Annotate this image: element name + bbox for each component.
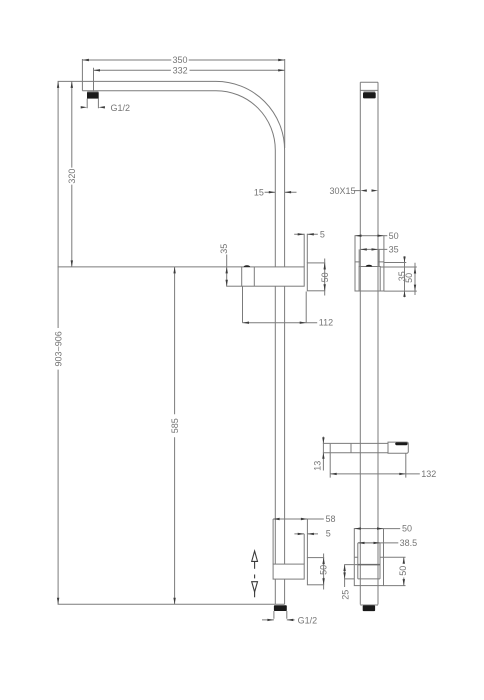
bottom extension line <box>58 603 285 605</box>
dim 5 mid lines <box>294 233 318 235</box>
dim G1/2 bottom lines <box>262 619 295 621</box>
dim 5 bottom lines <box>294 533 318 535</box>
dim 50 front mid line <box>324 259 326 296</box>
dim 112 line <box>243 322 318 324</box>
ext line y585.6 <box>384 585 406 587</box>
dim 132 line <box>330 473 420 475</box>
dim 50 front bottom line <box>323 554 325 590</box>
svg-text:50: 50 <box>389 231 399 241</box>
side bottom ledges <box>354 556 383 558</box>
side mid bracket ledges <box>355 261 384 263</box>
G1/2 inlet connector gray band <box>87 91 98 93</box>
side mid bracket bottom edge <box>355 290 384 292</box>
svg-text:332: 332 <box>173 66 188 76</box>
dim 50 side v line <box>414 263 416 295</box>
side mid bracket outer <box>355 236 384 291</box>
dim 13 line <box>322 437 324 471</box>
svg-text:350: 350 <box>172 55 187 65</box>
holder screw detail front <box>244 265 251 267</box>
dim 35 front bottom extension <box>226 285 242 287</box>
arrows dim 112 <box>243 322 250 324</box>
arrows dim 5 bottom <box>298 533 305 535</box>
holder end piece <box>388 442 408 453</box>
arrows dim G1/2 top <box>81 106 88 108</box>
svg-text:13: 13 <box>313 461 323 471</box>
dim 25 line <box>344 565 346 587</box>
slide down arrow head <box>252 582 258 592</box>
dim 132 extension lines <box>330 453 406 478</box>
side mid block <box>359 267 380 292</box>
arrows dim 25 <box>343 565 345 572</box>
dim 35 front line <box>226 255 228 287</box>
holder bar divider <box>253 267 255 286</box>
dim 5 mid extension lines <box>304 234 307 267</box>
slider block front <box>307 558 323 585</box>
side slider band bottom <box>358 578 380 580</box>
dim 15 lines <box>265 191 297 193</box>
arrows dim 50 front mid <box>324 263 326 270</box>
dim 35 side mid line <box>360 248 387 250</box>
dim 38.5 line <box>358 542 398 544</box>
side top cap black band <box>363 92 376 98</box>
holder top extension line <box>58 266 242 268</box>
side rail left edge <box>359 82 361 604</box>
label 30X15 leader dash <box>354 190 360 192</box>
svg-text:50: 50 <box>319 565 329 575</box>
dim 35 side v line <box>404 256 406 297</box>
bottom cap extension lines <box>274 611 287 619</box>
arrows dim 50 side bottom v <box>403 557 405 564</box>
arrows label 30X15 <box>360 189 367 191</box>
svg-text:50: 50 <box>402 523 412 533</box>
side bottom sleeve <box>358 543 380 579</box>
holder bar side <box>330 443 388 452</box>
slide up arrow head <box>252 551 258 561</box>
dim 50 side bottom v line <box>403 557 405 585</box>
arrows dim 320 <box>71 81 73 88</box>
slide dash <box>254 575 256 579</box>
svg-text:50: 50 <box>404 273 414 283</box>
ext line y557.2 <box>384 556 406 558</box>
arrows dim 58 <box>273 518 280 520</box>
dim 5 bottom extension line <box>303 534 305 564</box>
dim 25 extension lines <box>344 565 358 579</box>
side top cap gray band <box>364 91 376 93</box>
dim 112 extension lines <box>243 286 307 323</box>
ext line y291 <box>384 290 417 292</box>
svg-text:903~906: 903~906 <box>53 331 63 366</box>
dim 350 line <box>82 59 284 61</box>
svg-text:132: 132 <box>421 469 436 479</box>
arrows dim 5 mid <box>298 233 305 235</box>
arm left end cap <box>81 81 83 90</box>
dim 50 side mid line <box>384 235 387 237</box>
dim 13 extension lines <box>323 443 330 452</box>
side bottom bracket outer <box>354 529 383 586</box>
dim 350 extension lines <box>82 59 284 148</box>
dim 332 line <box>94 69 285 71</box>
arm top extension to left dims <box>58 80 83 82</box>
svg-text:320: 320 <box>67 169 77 184</box>
svg-text:35: 35 <box>389 244 399 254</box>
arrows dim 332 <box>94 69 101 71</box>
dim 585 line <box>174 267 176 604</box>
side rail top edge <box>360 81 378 83</box>
shower arm outer profile <box>82 81 284 267</box>
rail front right edge segments <box>284 286 286 604</box>
arrows dim 50 front bottom <box>322 558 324 565</box>
arrows dim 132 <box>330 473 337 475</box>
svg-text:35: 35 <box>219 244 229 254</box>
svg-text:5: 5 <box>320 230 325 240</box>
svg-text:112: 112 <box>319 317 333 327</box>
slide up arrow stem <box>254 561 256 568</box>
side mid bracket hole edges <box>359 249 379 266</box>
arrows dim 50 side bottom top <box>354 527 361 529</box>
side rail right edge <box>377 82 379 604</box>
svg-text:25: 25 <box>341 590 351 600</box>
arrows dim 15 <box>269 191 276 193</box>
svg-text:585: 585 <box>170 418 180 433</box>
svg-text:G1/2: G1/2 <box>111 103 131 113</box>
holder bar side divider <box>350 443 352 452</box>
svg-text:30X15: 30X15 <box>330 186 356 196</box>
rail front left edge segments <box>274 286 276 604</box>
dim 903-906 line <box>57 81 59 604</box>
arrows dim 38.5 <box>358 542 365 544</box>
dim 332 extension line <box>93 68 95 92</box>
dim 320 line <box>71 81 73 267</box>
arrows dim 35 side v <box>403 257 405 263</box>
holder bar front <box>242 267 305 286</box>
arrows dim 35 front <box>226 267 228 274</box>
arrows dim 903-906 <box>57 81 59 88</box>
slide down arrow stem <box>254 592 256 597</box>
side rail cap line <box>360 89 378 91</box>
arrows dim 50 side mid <box>355 235 362 237</box>
svg-text:58: 58 <box>326 514 336 524</box>
ext line y267 <box>380 266 417 268</box>
G1/2 inlet connector black <box>87 92 99 98</box>
arrows dim 350 <box>82 59 89 61</box>
arrows dim 35 side mid <box>360 248 367 250</box>
dim 58 line <box>273 518 324 520</box>
svg-text:50: 50 <box>320 272 330 282</box>
shower arm inner profile <box>82 91 275 267</box>
svg-text:15: 15 <box>254 187 264 197</box>
G1/2 inlet shank lines <box>87 99 98 109</box>
holder end black pill <box>395 442 407 445</box>
arrows dim 585 <box>173 267 175 274</box>
slider bar front <box>273 564 304 579</box>
dim 58 extension lines <box>273 519 307 564</box>
bottom cap side black <box>363 605 375 611</box>
dim 50 side bottom top line <box>384 528 401 530</box>
arrows dim G1/2 bottom <box>267 619 274 621</box>
bottom cap front black <box>274 605 287 611</box>
arrows dim 50 side v <box>414 267 416 274</box>
wall bracket block front <box>307 263 324 291</box>
side slider band top <box>358 564 380 566</box>
svg-text:50: 50 <box>398 566 408 576</box>
ext line y262.5 <box>384 262 406 264</box>
holder screw detail side <box>366 265 373 267</box>
svg-text:5: 5 <box>326 528 331 538</box>
side rail bottom end line <box>360 604 378 606</box>
arrows dim 13 <box>322 437 324 443</box>
svg-text:G1/2: G1/2 <box>298 615 318 625</box>
svg-text:38.5: 38.5 <box>400 538 418 548</box>
